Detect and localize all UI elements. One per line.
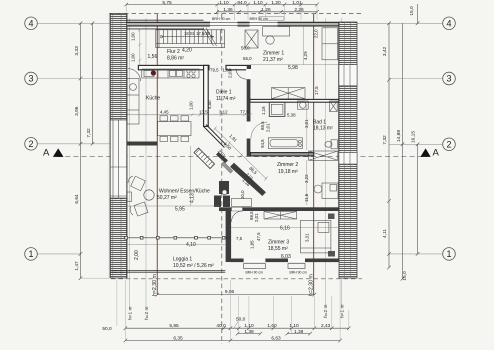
- top wall window 2: [250, 17, 285, 27]
- left dimension line inner: [81, 22, 110, 279]
- dining table: [158, 122, 192, 136]
- svg-text:8,86 m²: 8,86 m²: [167, 56, 184, 62]
- grid bubble 1 left: [25, 248, 38, 261]
- grid bubble 2 right: [443, 138, 456, 151]
- svg-text:1,10: 1,10: [253, 0, 263, 6]
- section line A-A dashed: [57, 156, 427, 158]
- interior dim line zimmer2: [306, 160, 308, 205]
- top dimension line row2: [215, 10, 318, 14]
- corridor wall stub before door: [216, 152, 228, 163]
- svg-text:7,5: 7,5: [236, 236, 243, 241]
- zimmer2 nightstand small box: [328, 214, 335, 220]
- svg-text:1,36: 1,36: [223, 7, 233, 13]
- stair walk arrow: [160, 35, 214, 38]
- bad1 bathtub: [268, 138, 302, 149]
- diele top wall: [226, 65, 250, 69]
- svg-text:3,01: 3,01: [304, 119, 309, 128]
- svg-text:6,35: 6,35: [173, 336, 183, 342]
- svg-text:1,10: 1,10: [244, 323, 254, 329]
- left exterior wall lower hatched: [110, 198, 126, 278]
- svg-text:88,5: 88,5: [249, 211, 254, 220]
- section marker A right: [420, 148, 439, 159]
- svg-text:3: 3: [28, 74, 33, 84]
- interior dim line zimmer1 horizontal: [250, 64, 338, 66]
- bottom 9.06 dimension: [156, 293, 317, 297]
- svg-text:2: 2: [446, 140, 451, 150]
- svg-text:h=2 m: h=2 m: [144, 307, 150, 320]
- svg-text:1: 1: [28, 249, 33, 259]
- svg-text:50,0: 50,0: [241, 46, 250, 51]
- svg-text:2,01: 2,01: [228, 69, 233, 78]
- svg-text:1,00: 1,00: [131, 53, 136, 62]
- svg-text:10,52 m² / 5,26 m²: 10,52 m² / 5,26 m²: [173, 263, 214, 269]
- bottom window 1 sill: [244, 259, 266, 275]
- zimmer1 wardrobe x-box: [272, 88, 306, 99]
- svg-text:47,5: 47,5: [256, 232, 261, 241]
- roof height line h=2m right: [325, 18, 327, 306]
- svg-text:5,98: 5,98: [288, 65, 298, 71]
- bottom 50.0 leader: [234, 322, 238, 329]
- interior dim line zimmer3: [231, 227, 338, 229]
- svg-text:11,74 m²: 11,74 m²: [216, 96, 236, 102]
- svg-text:1,00: 1,00: [131, 32, 136, 41]
- svg-text:3,22: 3,22: [304, 174, 309, 183]
- svg-text:1,56: 1,56: [148, 54, 158, 60]
- grid line 2: [38, 143, 111, 145]
- svg-text:1,85: 1,85: [250, 240, 255, 249]
- svg-text:7,32: 7,32: [86, 128, 92, 138]
- interior dim line living 5.95: [127, 205, 219, 207]
- zimmer3 wardrobe x-box: [264, 212, 297, 220]
- interior dim line loggia: [127, 244, 225, 246]
- svg-text:Loggia 1: Loggia 1: [173, 257, 192, 263]
- left exterior wall hatched: [110, 14, 126, 120]
- svg-text:Flur 2: Flur 2: [167, 49, 180, 55]
- roof height line h=1m left: [129, 18, 131, 308]
- svg-text:3: 3: [446, 74, 451, 84]
- svg-text:16,15: 16,15: [411, 131, 417, 143]
- loggia slab bottom edge: [111, 270, 225, 272]
- svg-text:11,5: 11,5: [304, 193, 309, 202]
- svg-text:4: 4: [28, 19, 33, 29]
- door leaf diagonal corridor: [221, 162, 232, 173]
- diagonal living-corridor hatched wall: [194, 148, 215, 169]
- roof eaves dashed top: [109, 13, 362, 15]
- kitchen tall unit dark: [214, 181, 230, 207]
- svg-text:1,00: 1,00: [188, 101, 193, 110]
- svg-text:14,88: 14,88: [396, 130, 402, 142]
- diagonal corridor wall upper thin: [204, 125, 227, 148]
- svg-text:Wohnen/ Essen/Küche: Wohnen/ Essen/Küche: [159, 189, 210, 195]
- svg-text:2,01: 2,01: [254, 213, 259, 222]
- left wall inner face line: [126, 14, 128, 278]
- loggia separation line with posts: [124, 236, 230, 239]
- svg-text:5,95: 5,95: [169, 323, 179, 329]
- top wall inner line stair hall: [127, 28, 204, 30]
- bad1 left wall: [247, 100, 251, 157]
- svg-text:84,0: 84,0: [237, 0, 247, 6]
- bottom extension lines: [117, 280, 349, 341]
- svg-text:3,96: 3,96: [74, 106, 80, 116]
- zimmer3 door arc: [232, 211, 243, 222]
- kueche counter left wall: [127, 79, 139, 125]
- svg-text:21,37 m²: 21,37 m²: [263, 57, 283, 63]
- svg-text:BRH 90 cm: BRH 90 cm: [250, 17, 268, 21]
- shaft x-box by stairs: [245, 30, 258, 48]
- flur2 dim line: [138, 29, 141, 66]
- svg-text:6,64: 6,64: [74, 194, 80, 204]
- kueche counter top row: [142, 69, 199, 78]
- svg-text:Zimmer 2: Zimmer 2: [277, 162, 298, 168]
- svg-text:1,20: 1,20: [271, 0, 281, 6]
- zimmer1 door arc: [236, 69, 247, 80]
- diele-zimmer1 wall vertical: [247, 66, 251, 100]
- svg-text:1,18: 1,18: [261, 106, 266, 115]
- zimmer2 wardrobe x-box: [309, 151, 338, 160]
- section marker A left: [43, 148, 64, 159]
- bad1 washing machine: [330, 101, 338, 112]
- kueche-wohnen wall at grid2: [127, 142, 157, 146]
- kitchen interior dim row: [126, 113, 252, 116]
- svg-text:2,43: 2,43: [321, 323, 331, 329]
- svg-text:1,38: 1,38: [244, 329, 254, 335]
- left wall layer lines: [112, 14, 114, 120]
- svg-text:BRH 90 cm: BRH 90 cm: [290, 271, 308, 275]
- zimmer2 chair: [314, 185, 322, 193]
- svg-text:h=2,30 m: h=2,30 m: [152, 274, 158, 296]
- svg-text:1: 1: [446, 249, 451, 259]
- zimmer2 desk: [322, 183, 338, 199]
- zimmer3 bed: [301, 220, 331, 253]
- svg-text:h=1 m: h=1 m: [128, 307, 134, 320]
- bottom dimension row C: [124, 339, 342, 343]
- grid bubble 3 left: [25, 72, 38, 85]
- grid line 4: [38, 23, 443, 254]
- bottom row B labels: [244, 329, 303, 335]
- svg-text:h=2,30 m: h=2,30 m: [308, 274, 314, 296]
- svg-text:10,0: 10,0: [240, 190, 245, 199]
- grid bubble 2 left: [25, 138, 38, 151]
- svg-text:6,03: 6,03: [281, 254, 291, 260]
- right wall window zimmer1: [339, 65, 357, 86]
- svg-text:4,50: 4,50: [207, 100, 212, 109]
- svg-text:79,5: 79,5: [210, 68, 219, 73]
- svg-text:Küche: Küche: [146, 96, 160, 102]
- kueche-diele wall vertical: [204, 65, 209, 126]
- svg-text:2,00: 2,00: [134, 250, 140, 260]
- kitchen tall unit circle: [222, 190, 227, 195]
- svg-text:50,0: 50,0: [236, 317, 246, 323]
- svg-text:4,11: 4,11: [382, 229, 388, 238]
- bottom window 2 sill: [288, 259, 307, 275]
- svg-text:2,01: 2,01: [266, 123, 271, 132]
- top exterior wall: [127, 22, 339, 26]
- interior dim line living 4.13 vertical: [190, 146, 192, 206]
- svg-text:1,47: 1,47: [74, 261, 80, 271]
- bottom wall zimmer3: [230, 259, 339, 263]
- svg-text:18 St. 17,5/28: 18 St. 17,5/28: [184, 31, 211, 36]
- grid bubble 4 left: [25, 17, 456, 260]
- zimmer2 bottom wall: [240, 207, 339, 211]
- svg-text:4,45: 4,45: [160, 110, 169, 115]
- svg-text:55,0: 55,0: [243, 56, 252, 61]
- interior dim line 3.01: [306, 104, 308, 150]
- svg-text:19,18 m²: 19,18 m²: [278, 169, 298, 175]
- svg-text:5,75: 5,75: [162, 0, 172, 6]
- svg-text:94,8: 94,8: [260, 139, 265, 148]
- svg-text:7,32: 7,32: [382, 135, 388, 145]
- dining chairs bottom: [160, 136, 189, 141]
- bad1 top wall: [250, 99, 339, 102]
- top dimension labels row2: [223, 7, 304, 13]
- svg-text:15,0: 15,0: [409, 6, 415, 16]
- zimmer1 chair: [266, 36, 274, 44]
- left wall window y120-198: [110, 120, 126, 198]
- kueche stove knob dark: [151, 70, 156, 75]
- svg-text:3,31: 3,31: [305, 233, 310, 242]
- svg-text:6,16: 6,16: [280, 226, 290, 232]
- svg-text:A: A: [43, 148, 50, 159]
- zimmer2 dresser: [232, 199, 252, 207]
- svg-text:Zimmer 3: Zimmer 3: [268, 240, 289, 246]
- living/zimmer3 wall stub: [219, 207, 232, 211]
- left dimension labels: [74, 46, 92, 271]
- right wall inner face: [338, 22, 340, 262]
- zimmer2 bottom wall door gap: [232, 207, 243, 211]
- grid bubble 4 right: [443, 17, 456, 30]
- bottom row A labels: [102, 317, 330, 333]
- svg-text:40,0: 40,0: [216, 323, 226, 329]
- red section height line h=2.30m right: [313, 14, 315, 295]
- loggia-zimmer3 wall vertical: [226, 211, 232, 262]
- zimmer1 desk: [263, 27, 290, 37]
- svg-text:Diele 1: Diele 1: [216, 90, 232, 96]
- zimmer1 door gap: [246, 69, 251, 79]
- svg-text:A: A: [433, 148, 440, 159]
- svg-text:17,5: 17,5: [314, 86, 319, 95]
- grid line 1: [38, 253, 81, 255]
- right dimension line second: [401, 23, 405, 280]
- bad1 door gap: [246, 122, 251, 139]
- svg-text:88,5: 88,5: [260, 121, 265, 130]
- right dimension line main: [387, 22, 391, 270]
- svg-text:h=2 m: h=2 m: [323, 305, 329, 318]
- right dimension labels: [382, 6, 417, 281]
- left dimension line outer: [79, 22, 83, 281]
- roof eaves dashed bottom: [111, 278, 362, 280]
- svg-text:Zimmer 1: Zimmer 1: [263, 51, 284, 57]
- top wall window 1: [210, 17, 238, 27]
- svg-text:4,29: 4,29: [303, 51, 308, 60]
- bottom row C labels: [173, 336, 281, 342]
- top dimension labels row1: [162, 0, 302, 6]
- svg-text:1,38: 1,38: [294, 329, 304, 335]
- bottom dimension row B: [236, 332, 312, 336]
- svg-text:1,60: 1,60: [267, 323, 277, 329]
- right wall window zimmer2: [339, 153, 357, 165]
- svg-text:1,10: 1,10: [289, 323, 299, 329]
- svg-text:2,26: 2,26: [294, 7, 304, 13]
- red section height line h=2.30m left: [156, 14, 158, 295]
- svg-text:22,0: 22,0: [314, 29, 319, 38]
- left wall outer finish line: [108, 14, 110, 278]
- svg-text:BRH 90 cm: BRH 90 cm: [212, 17, 230, 21]
- bottom dimension row A: [124, 326, 351, 330]
- grid bubble 3 right: [443, 72, 456, 85]
- zimmer3 corner small box: [328, 251, 335, 257]
- svg-text:5,95: 5,95: [175, 207, 185, 213]
- svg-text:1,01: 1,01: [292, 0, 302, 6]
- bad1 bottom wall: [250, 153, 313, 156]
- svg-text:4,20: 4,20: [182, 48, 192, 54]
- svg-text:h=1 m: h=1 m: [340, 305, 346, 318]
- flur2/kueche wall: [138, 65, 209, 69]
- diagonal corridor dim line: [214, 127, 268, 181]
- svg-text:13,5: 13,5: [199, 110, 208, 115]
- right dimension line third: [416, 4, 420, 256]
- svg-text:1,10: 1,10: [219, 0, 229, 6]
- bad1 door arc: [251, 122, 268, 139]
- zimmer1 closet right: [322, 28, 338, 60]
- svg-text:50,27 m²: 50,27 m²: [157, 195, 177, 201]
- right wall layer lines: [344, 22, 346, 278]
- svg-text:1,26: 1,26: [261, 7, 271, 13]
- svg-text:9,06: 9,06: [225, 289, 235, 295]
- svg-text:77,5: 77,5: [240, 110, 249, 115]
- bad1 washbasin: [298, 101, 309, 109]
- dining chairs top: [160, 116, 189, 121]
- svg-text:50,0: 50,0: [102, 326, 112, 332]
- svg-text:4: 4: [446, 19, 451, 29]
- stair break line: [203, 28, 214, 47]
- grid bubble numbers: [28, 19, 451, 260]
- svg-text:2: 2: [28, 139, 33, 149]
- svg-text:3,42: 3,42: [382, 47, 388, 57]
- sofa group: [127, 176, 154, 216]
- svg-text:15,0: 15,0: [402, 271, 408, 281]
- grid line 3: [38, 78, 110, 80]
- roof height line h=2m left: [145, 18, 147, 308]
- svg-text:3,33: 3,33: [74, 46, 80, 56]
- bad1 wc: [325, 140, 338, 149]
- svg-text:18,13 m²: 18,13 m²: [313, 126, 333, 132]
- svg-text:5,38: 5,38: [287, 113, 296, 118]
- staircase: [156, 30, 225, 48]
- right exterior wall hatched: [339, 22, 357, 278]
- diagonal zimmer2 wall: [230, 163, 266, 196]
- svg-text:3,12: 3,12: [219, 110, 228, 115]
- interior dim line zimmer1 vertical: [302, 26, 304, 64]
- top dimension line row1: [125, 3, 319, 7]
- top extension lines: [126, 5, 317, 20]
- ridge dashed vertical: [221, 14, 223, 344]
- svg-text:4,10: 4,10: [186, 242, 196, 248]
- bad1 shower: [269, 102, 285, 116]
- svg-text:BRH 90 cm: BRH 90 cm: [246, 271, 264, 275]
- svg-text:6,63: 6,63: [271, 336, 281, 342]
- grid bubble 1 right: [443, 248, 456, 261]
- roof height line h=1m right: [341, 18, 343, 306]
- top wall outer line stair hall: [127, 19, 204, 21]
- svg-text:18,55 m²: 18,55 m²: [268, 246, 288, 252]
- kitchen door arc: [128, 69, 141, 82]
